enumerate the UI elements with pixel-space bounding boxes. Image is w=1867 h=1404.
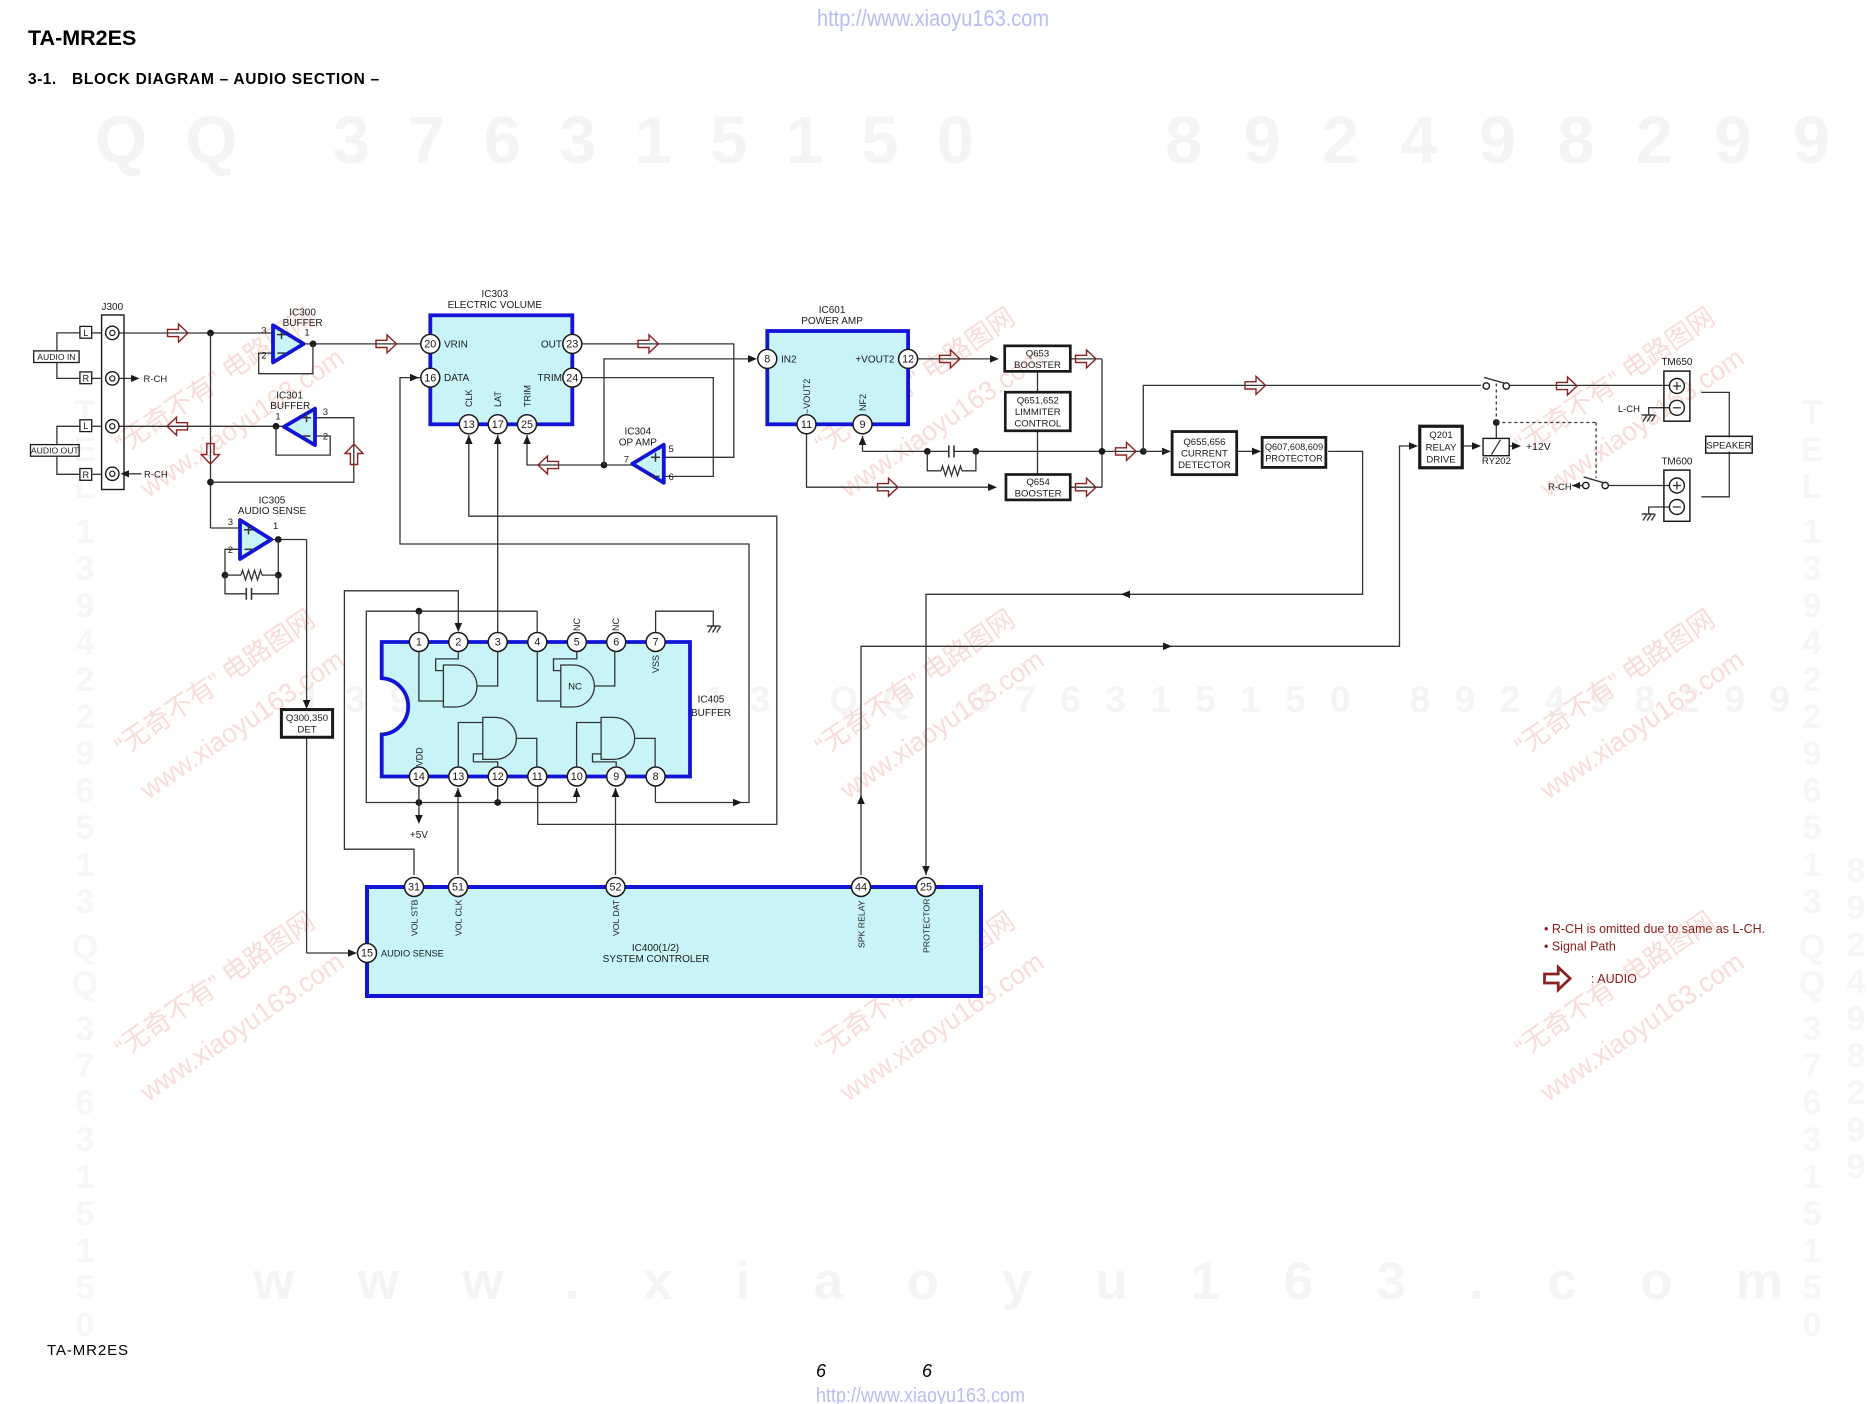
svg-text:3: 3 [76,1121,95,1159]
svg-text:IC305: IC305 [259,495,286,506]
svg-text:2: 2 [228,545,233,556]
svg-text:3: 3 [323,407,328,418]
svg-text:OP AMP: OP AMP [619,437,657,448]
svg-text:6: 6 [922,1361,933,1381]
svg-text:25: 25 [920,882,932,894]
svg-text:6: 6 [76,772,95,810]
svg-text:12: 12 [902,354,914,366]
svg-text:1: 1 [1803,1232,1822,1270]
svg-text:2: 2 [323,432,328,443]
svg-text:3: 3 [1803,550,1822,588]
svg-text:: AUDIO: : AUDIO [1591,972,1637,986]
svg-text:Q651,652: Q651,652 [1017,395,1059,406]
svg-text:1: 1 [76,1158,95,1196]
svg-text:2: 2 [261,350,266,361]
svg-text:E: E [1801,431,1824,469]
svg-text:13: 13 [452,771,464,783]
svg-text:CONTROL: CONTROL [1014,418,1062,429]
svg-text:2: 2 [76,661,95,699]
svg-text:DET: DET [297,725,316,736]
svg-text:13: 13 [463,419,475,431]
svg-text:5: 5 [1803,1269,1822,1307]
svg-text:AUDIO SENSE: AUDIO SENSE [381,949,444,959]
svg-text:VOL DAT: VOL DAT [611,899,621,936]
svg-text:6: 6 [669,472,674,483]
svg-text:6: 6 [76,1084,95,1122]
svg-text:9: 9 [1847,1000,1866,1038]
svg-text:Q653: Q653 [1026,348,1049,359]
svg-text:www.xiaoyu163.com: www.xiaoyu163.com [252,1252,1783,1311]
svg-text:+12V: +12V [1526,441,1551,453]
svg-text:5: 5 [1803,809,1822,847]
svg-text:http://www.xiaoyu163.com: http://www.xiaoyu163.com [817,5,1049,31]
svg-text:2: 2 [1803,698,1822,736]
svg-text:5: 5 [1803,1195,1822,1233]
svg-text:BUFFER: BUFFER [691,708,731,719]
svg-text:Q: Q [1799,965,1825,1003]
svg-text:11: 11 [532,771,543,783]
svg-text:5: 5 [76,1195,95,1233]
svg-text:12: 12 [492,771,504,783]
svg-text:IC301: IC301 [276,390,303,401]
svg-text:BUFFER: BUFFER [270,401,310,412]
svg-text:3: 3 [495,637,501,649]
svg-text:TA-MR2ES: TA-MR2ES [47,1342,129,1359]
svg-text:9: 9 [1847,1148,1866,1186]
svg-text:7: 7 [653,637,659,649]
svg-text:AUDIO OUT: AUDIO OUT [31,446,79,456]
svg-text:3: 3 [261,325,266,336]
svg-text:1: 1 [416,637,422,649]
svg-text:AUDIO SENSE: AUDIO SENSE [238,506,307,517]
svg-text:5: 5 [76,809,95,847]
svg-text:SPEAKER: SPEAKER [1706,441,1751,452]
svg-text:2: 2 [1847,1074,1866,1112]
svg-text:RELAY: RELAY [1426,442,1457,453]
svg-text:L: L [1802,468,1823,506]
svg-text:L-CH: L-CH [1618,404,1640,415]
svg-text:R-CH: R-CH [144,374,168,385]
svg-text:6: 6 [816,1361,827,1381]
svg-text:6: 6 [613,637,619,649]
svg-text:VDD: VDD [414,747,424,767]
svg-text:0: 0 [1803,1306,1822,1344]
svg-text:5: 5 [76,1269,95,1307]
svg-text:AUDIO IN: AUDIO IN [37,352,75,362]
svg-text:5: 5 [574,637,580,649]
svg-text:• Signal Path: • Signal Path [1544,940,1616,954]
svg-text:DETECTOR: DETECTOR [1178,460,1231,471]
svg-text:ELECTRIC VOLUME: ELECTRIC VOLUME [448,300,543,311]
svg-text:3-1.: 3-1. [28,71,57,88]
svg-text:7: 7 [1803,1047,1822,1085]
svg-text:CLK: CLK [464,389,474,407]
svg-text:LAT: LAT [493,391,503,407]
svg-text:2: 2 [455,637,461,649]
svg-text:23: 23 [566,339,578,351]
svg-text:Q: Q [72,965,98,1003]
svg-text:1: 1 [76,846,95,884]
svg-text:10: 10 [571,771,583,783]
svg-text:VOL STB: VOL STB [409,899,419,936]
svg-text:J300: J300 [101,302,123,313]
svg-text:3: 3 [76,883,95,921]
svg-text:4: 4 [1803,624,1822,662]
svg-text:1: 1 [1803,1158,1822,1196]
svg-text:3: 3 [1803,1010,1822,1048]
svg-text:25: 25 [521,419,533,431]
svg-text:4: 4 [1847,963,1866,1001]
svg-text:VOL CLK: VOL CLK [453,899,463,936]
svg-text:6: 6 [1803,1084,1822,1122]
svg-text:8: 8 [653,771,659,783]
svg-text:IC304: IC304 [624,427,651,438]
svg-text:1: 1 [76,1232,95,1270]
svg-text:DATA: DATA [444,373,470,384]
svg-text:http://www.xiaoyu163.com: http://www.xiaoyu163.com [816,1385,1025,1404]
svg-text:9: 9 [1803,735,1822,773]
svg-text:20: 20 [424,339,436,351]
svg-text:1: 1 [76,513,95,551]
svg-text:VSS: VSS [651,655,661,673]
svg-text:PROTECTOR: PROTECTOR [921,899,931,953]
svg-text:15: 15 [361,948,373,960]
svg-text:6: 6 [1803,772,1822,810]
svg-text:24: 24 [566,372,578,384]
svg-text:−VOUT2: −VOUT2 [802,379,812,414]
svg-text:5: 5 [669,444,674,455]
svg-text:2: 2 [76,698,95,736]
svg-text:11: 11 [801,419,812,431]
svg-text:BOOSTER: BOOSTER [1015,488,1062,499]
svg-text:8: 8 [1847,852,1866,890]
svg-text:• R-CH is omitted due to same: • R-CH is omitted due to same as L-CH. [1544,922,1765,936]
svg-text:Q607,608,609: Q607,608,609 [1265,442,1323,452]
svg-text:9: 9 [1847,1111,1866,1149]
svg-text:VRIN: VRIN [444,339,468,350]
svg-text:RY202: RY202 [1482,456,1511,467]
svg-text:9: 9 [859,419,865,431]
svg-text:PROTECTOR: PROTECTOR [1265,454,1323,464]
svg-text:+VOUT2: +VOUT2 [855,354,895,365]
svg-text:IN2: IN2 [781,354,797,365]
svg-text:3: 3 [228,517,233,528]
svg-text:Q300,350: Q300,350 [286,713,328,724]
svg-text:9: 9 [76,735,95,773]
svg-text:1: 1 [304,327,309,338]
svg-text:892498299: 892498299 [1165,103,1830,178]
svg-text:9: 9 [76,587,95,625]
svg-text:NC: NC [568,682,582,693]
svg-text:IC601: IC601 [819,305,846,316]
svg-text:17: 17 [492,419,504,431]
svg-text:L: L [83,328,88,338]
svg-text:NF2: NF2 [858,394,868,411]
svg-text:R: R [82,373,89,383]
svg-text:LIMMITER: LIMMITER [1015,407,1061,418]
svg-text:SPK RELAY: SPK RELAY [856,900,866,948]
svg-text:3: 3 [76,550,95,588]
svg-text:R: R [82,470,89,480]
svg-text:8: 8 [1847,1037,1866,1075]
svg-text:31: 31 [408,882,420,894]
svg-text:BOOSTER: BOOSTER [1014,360,1061,371]
svg-text:8: 8 [764,354,770,366]
svg-text:TM600: TM600 [1661,457,1693,468]
svg-text:4: 4 [534,637,540,649]
svg-text:SYSTEM CONTROLER: SYSTEM CONTROLER [603,954,710,965]
svg-text:Q654: Q654 [1026,477,1050,488]
svg-text:0: 0 [76,1306,95,1344]
svg-text:R-CH: R-CH [1548,482,1572,493]
svg-text:T: T [1802,394,1823,432]
svg-text:R-CH: R-CH [144,469,168,480]
svg-text:9: 9 [1803,587,1822,625]
svg-text:16: 16 [424,372,436,384]
svg-text:IC400(1/2): IC400(1/2) [632,943,679,954]
svg-text:Q655,656: Q655,656 [1183,437,1225,448]
svg-text:1: 1 [273,521,278,532]
svg-text:9: 9 [613,771,619,783]
svg-text:NC: NC [572,618,582,631]
svg-text:3: 3 [1803,1121,1822,1159]
svg-text:14: 14 [413,771,425,783]
svg-text:9: 9 [1847,889,1866,927]
svg-text:2: 2 [1847,926,1866,964]
svg-text:2: 2 [1803,661,1822,699]
svg-text:TRIM: TRIM [522,385,532,407]
svg-text:TA-MR2ES: TA-MR2ES [28,26,136,50]
svg-text:IC303: IC303 [481,289,508,300]
svg-text:7: 7 [76,1047,95,1085]
svg-text:TM650: TM650 [1661,357,1693,368]
svg-text:POWER AMP: POWER AMP [801,316,863,327]
svg-text:CURRENT: CURRENT [1181,449,1228,460]
svg-text:BUFFER: BUFFER [283,318,323,329]
svg-text:Q201: Q201 [1429,430,1452,441]
svg-text:44: 44 [855,882,867,894]
svg-text:51: 51 [452,882,464,894]
svg-text:4: 4 [76,624,95,662]
svg-text:1: 1 [1803,846,1822,884]
svg-text:IC300: IC300 [289,307,316,318]
svg-text:NC: NC [611,618,621,631]
svg-text:TRIM: TRIM [538,373,562,384]
svg-text:DRIVE: DRIVE [1426,455,1455,466]
svg-text:L: L [83,421,88,431]
svg-text:IC405: IC405 [698,695,725,706]
svg-text:3: 3 [76,1010,95,1048]
svg-text:Q: Q [72,928,98,966]
svg-text:52: 52 [609,882,621,894]
svg-text:7: 7 [624,455,629,466]
svg-text:Q: Q [1799,928,1825,966]
svg-text:OUT: OUT [541,339,562,350]
svg-text:1: 1 [1803,513,1822,551]
svg-text:BLOCK DIAGRAM – AUDIO SECTION: BLOCK DIAGRAM – AUDIO SECTION – [72,71,380,88]
svg-text:1: 1 [275,412,280,423]
svg-text:3: 3 [1803,883,1822,921]
svg-text:+5V: +5V [410,830,428,841]
